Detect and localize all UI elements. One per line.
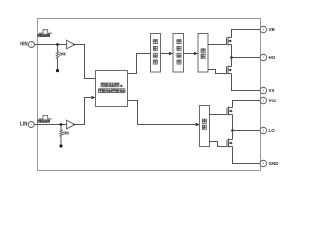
- value label 200K (R2): [62, 131, 69, 136]
- arrowhead into pulse filter: [169, 52, 173, 56]
- node LO junction: [231, 129, 234, 132]
- IC outline box: [38, 19, 261, 171]
- pin 3 LIN terminal: [28, 122, 34, 128]
- wire LIN to buffer: [34, 124, 66, 126]
- pin 7 HO terminal: [260, 54, 267, 61]
- wire buffer U3 to logic block: [74, 98, 91, 125]
- pin label HO: [269, 55, 276, 60]
- wire node HO to Q2 drain: [231, 58, 233, 67]
- wire level shifter to pulse filter: [161, 53, 170, 55]
- arrowhead into low-side driver: [196, 123, 200, 127]
- R2 ground terminal dot: [59, 144, 62, 147]
- pin 8 VB terminal: [260, 26, 267, 33]
- wire driver to Q4 gate: [209, 142, 227, 147]
- pin 2 HIN terminal: [28, 42, 34, 48]
- buffer U2 (HIN input buffer): [67, 40, 75, 49]
- node HO junction: [230, 56, 233, 59]
- label 驱动 (high-side driver): [201, 49, 205, 59]
- wire node LO to pin 5: [233, 130, 261, 132]
- wire U1 to level shifter: [128, 54, 151, 74]
- svg-text:200K: 200K: [59, 52, 66, 57]
- transistor Q4 (low-side lower MOSFET): [227, 139, 233, 148]
- pin label VS: [269, 88, 275, 93]
- pin label HIN: [20, 42, 28, 48]
- wire node LO to Q4 drain: [232, 131, 234, 140]
- pin 1 Vcc terminal: [260, 97, 267, 104]
- svg-text:GND: GND: [269, 161, 280, 166]
- caption 逻辑输入 (HIN): [38, 34, 50, 37]
- block U1 interlock / dead-time logic: [96, 71, 128, 107]
- label 驱动 (low-side driver): [202, 119, 206, 129]
- svg-text:VS: VS: [269, 88, 275, 93]
- arrowhead into high-side driver: [194, 52, 198, 56]
- wire node HO to pin 7: [232, 57, 261, 59]
- label 电平位移 (vertical): [153, 40, 157, 65]
- wire Vcc to Q3 drain: [233, 101, 261, 108]
- value label 200K (R1): [59, 52, 66, 57]
- pin 5 LO terminal: [260, 127, 267, 134]
- wire U1 to low-side driver: [128, 101, 196, 125]
- svg-text:HO: HO: [269, 55, 276, 60]
- wire driver to Q1 gate: [208, 44, 226, 46]
- R1 ground terminal dot: [56, 69, 59, 72]
- wire driver to Q2 gate: [208, 70, 226, 74]
- node LIN/R2 junction: [60, 123, 63, 126]
- svg-text:LIN: LIN: [20, 122, 28, 128]
- svg-text:VB: VB: [269, 27, 276, 32]
- pin label LIN: [20, 122, 28, 128]
- pin 4 GND terminal: [260, 160, 267, 167]
- wire HIN to buffer: [34, 44, 66, 46]
- wire buffer U2 to logic block: [74, 45, 95, 79]
- block level shift 电平位移: [151, 34, 161, 73]
- wire pulse filter to driver: [183, 53, 194, 55]
- block low-side driver 驱动: [200, 106, 210, 147]
- transistor Q3 (low-side upper MOSFET): [227, 107, 233, 116]
- pin 6 VS terminal: [260, 87, 267, 94]
- logic-input pulse symbol (LIN): [39, 115, 52, 119]
- caption 逻辑输入 (LIN): [38, 120, 50, 123]
- resistor R1 200K (HIN pulldown): [56, 45, 59, 70]
- logic-input pulse symbol (HIN): [39, 30, 52, 34]
- block pulse filter 脉冲滤波: [173, 34, 183, 73]
- wire driver to Q3 gate: [209, 114, 227, 116]
- label 脉冲滤波 (vertical): [177, 40, 181, 65]
- block high-side driver 驱动: [198, 34, 208, 73]
- wire Q4 source to GND: [233, 147, 261, 164]
- svg-text:200K: 200K: [62, 131, 69, 136]
- pin label LO: [269, 128, 276, 133]
- wire Q1 drain to VB rail: [232, 30, 261, 38]
- transistor Q2 (high-side lower MOSFET): [227, 66, 232, 75]
- pin label GND: [269, 161, 280, 166]
- resistor R2 200K (LIN pulldown): [60, 125, 63, 145]
- label 死区时间电路 (U1 line2): [98, 89, 125, 93]
- arrowhead into logic block (LIN path): [91, 96, 95, 100]
- wire Q2 source to VS: [232, 74, 261, 91]
- pin label Vcc: [269, 98, 278, 103]
- wire Q1 source to node HO: [231, 45, 233, 58]
- svg-text:Vcc: Vcc: [269, 98, 278, 103]
- label 闭锁电路 (U1 line1): [101, 83, 122, 87]
- wire Q3 source to node LO: [232, 115, 234, 131]
- buffer U3 (LIN input buffer): [67, 120, 75, 129]
- svg-text:HIN: HIN: [20, 42, 28, 48]
- pin label VB: [269, 27, 276, 32]
- transistor Q1 (high-side upper MOSFET): [227, 37, 232, 46]
- svg-text:LO: LO: [269, 128, 276, 133]
- node HIN/R1 junction: [56, 43, 59, 46]
